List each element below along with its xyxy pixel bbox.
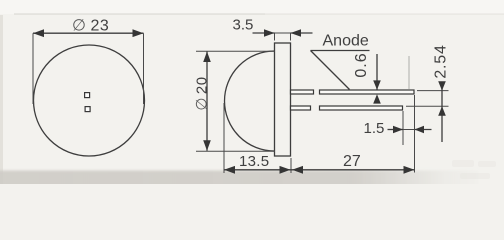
anode lead pad (upper square) <box>85 93 90 98</box>
dim 23 left extension line <box>32 33 34 104</box>
faint scan line across top <box>14 13 265 15</box>
page background <box>0 0 504 184</box>
cathode lead segment 2 (lower) <box>320 106 403 110</box>
dim 2.54 up arrowhead <box>438 106 446 115</box>
anode leader diagonal <box>311 51 350 90</box>
svg-text:13.5: 13.5 <box>239 153 269 170</box>
svg-text:∅20: ∅20 <box>193 76 210 110</box>
svg-text:3.5: 3.5 <box>233 17 254 34</box>
dim 20 bottom extension line <box>196 150 275 152</box>
dim 2.54 bottom extension line <box>406 105 449 107</box>
dim 27 left arrowhead <box>292 166 303 174</box>
anode lead end extension line <box>414 95 416 173</box>
dim 3.5 right extension tick <box>290 34 292 41</box>
dim 2.54 top extension line <box>417 90 449 92</box>
dim 20 dimension line <box>206 52 208 151</box>
dim 0.6 lower up arrowhead <box>373 94 381 103</box>
svg-text:2.54: 2.54 <box>433 44 450 78</box>
lighter top strip <box>0 0 504 14</box>
svg-text:0.6: 0.6 <box>353 52 370 77</box>
svg-text:Anode: Anode <box>323 33 369 50</box>
dim 0.6 upper line with down arrowhead <box>376 54 378 90</box>
flange body rectangle <box>275 43 291 156</box>
dim 23 dimension line <box>33 32 144 34</box>
dim 1.5 left tail with right-pointing arrowhead <box>388 129 404 131</box>
cathode lead pad (lower square) <box>85 107 90 112</box>
dim 2.54 down arrowhead <box>438 81 446 90</box>
cathode lead end extension line <box>402 111 404 145</box>
bottom dimension line 13.5 / 27 <box>224 169 415 171</box>
svg-text:27: 27 <box>343 153 361 170</box>
anode leader underline <box>311 50 370 52</box>
dim 27 right arrowhead <box>404 166 415 174</box>
flange right extension line (bottom) <box>290 158 292 173</box>
dome left extension line (bottom) <box>223 103 225 173</box>
cathode lead segment 1 (lower) <box>291 106 311 110</box>
dim 23 right arrowhead <box>133 29 144 37</box>
dim 1.5 right tail with left-pointing arrowhead <box>415 129 432 131</box>
dim 3.5 left tail with right-pointing arrowhead <box>253 32 275 34</box>
dim 3.5 line between extension ticks <box>275 32 291 34</box>
LED flange circle (front view, dia 23) <box>34 45 145 156</box>
epoxy dome (half circle r=50) <box>224 51 274 151</box>
dim 20 top arrowhead <box>203 52 211 63</box>
svg-text:1.5: 1.5 <box>364 120 385 137</box>
left edge scan shading <box>0 15 3 184</box>
dim 1.5 middle segment <box>403 129 415 131</box>
dim 13.5 left arrowhead <box>224 166 235 174</box>
svg-text:∅23: ∅23 <box>72 18 109 35</box>
dim 3.5 left extension tick <box>274 34 276 41</box>
anode lead segment 1 (upper) <box>291 90 314 94</box>
faint projection line above anode lead end <box>408 56 410 89</box>
dim 23 left arrowhead <box>33 29 44 37</box>
dim 20 bottom arrowhead <box>203 140 211 151</box>
ghost bleed-through marks bottom right <box>452 160 496 179</box>
dim 2.54 dimension line <box>441 84 443 142</box>
dim 23 right extension line <box>143 33 145 104</box>
dim 20 top extension line <box>196 50 275 52</box>
dim 13.5 right arrowhead <box>280 166 291 174</box>
anode lead segment 2 (upper) <box>320 90 415 94</box>
dim 3.5 right tail with left-pointing arrowhead <box>291 32 313 34</box>
